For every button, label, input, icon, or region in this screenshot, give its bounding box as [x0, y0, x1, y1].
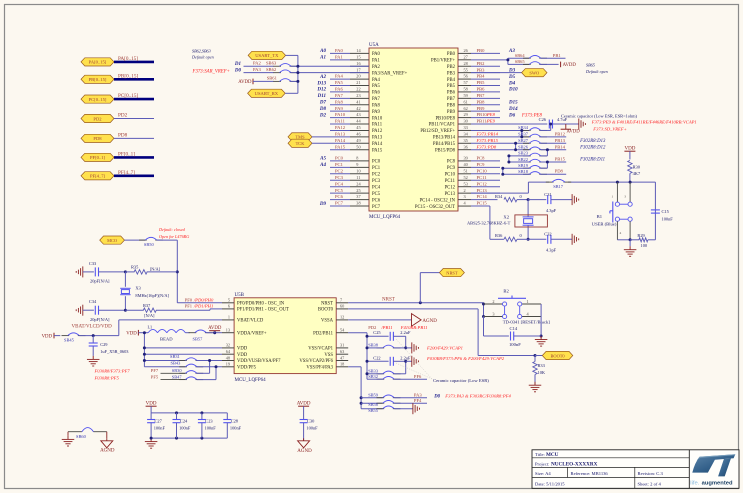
ground VCAP1 rotated	[406, 342, 419, 353]
svg-text:PB3: PB3	[477, 67, 486, 72]
power VDD B1	[624, 146, 635, 159]
port tag NRST	[420, 269, 464, 303]
svg-text:PC2: PC2	[335, 168, 344, 173]
svg-text:PA4: PA4	[335, 74, 343, 79]
svg-text:9: 9	[356, 162, 358, 167]
svg-text:/PD0/PH0: /PD0/PH0	[193, 297, 214, 302]
svg-text:SB18: SB18	[518, 169, 529, 174]
svg-text:PC14: PC14	[477, 194, 488, 199]
svg-text:2.2uF: 2.2uF	[400, 355, 411, 360]
wire PC14 row	[471, 199, 498, 201]
net label F373:PD8	[471, 144, 529, 149]
svg-text:PA7: PA7	[372, 97, 381, 102]
svg-text:PB4: PB4	[447, 78, 456, 83]
svg-text:PA15: PA15	[335, 144, 346, 149]
wire decoupling top rail	[151, 411, 227, 414]
svg-text:4.3pF: 4.3pF	[546, 248, 557, 253]
svg-text:PB10/PE8: PB10/PE8	[435, 116, 455, 121]
svg-text:F373:PA3 & F303RC/F030R8:PF4: F373:PA3 & F303RC/F030R8:PF4	[444, 394, 511, 399]
svg-text:40: 40	[464, 162, 468, 167]
svg-text:1uF_X5R_0603: 1uF_X5R_0603	[100, 349, 129, 354]
port tag SWO	[522, 69, 547, 77]
svg-text:SB59: SB59	[368, 392, 379, 397]
capacitor C31	[528, 192, 572, 213]
net label PF1	[185, 304, 214, 309]
ground SB55 rotated	[413, 403, 420, 414]
note F030R8 PF7	[94, 368, 131, 373]
svg-text:VDD: VDD	[42, 334, 53, 339]
svg-text:X3: X3	[135, 285, 141, 290]
svg-text:C30: C30	[307, 418, 315, 423]
svg-text:49: 49	[356, 138, 360, 143]
svg-text:C29: C29	[100, 342, 108, 347]
svg-text:F373:SAR_VREF+: F373:SAR_VREF+	[192, 70, 230, 75]
svg-text:PB3: PB3	[447, 71, 456, 76]
svg-text:PB8: PB8	[477, 99, 486, 104]
svg-text:C26: C26	[539, 117, 547, 122]
svg-text:PA9: PA9	[335, 106, 343, 111]
svg-text:F373:PB14: F373:PB14	[476, 131, 499, 136]
svg-text:D1: D1	[234, 62, 241, 67]
svg-text:C25: C25	[373, 330, 381, 335]
svg-text:100nF: 100nF	[230, 425, 242, 430]
svg-text:Sheet: 2 of 4: Sheet: 2 of 4	[638, 481, 662, 486]
svg-text:C24: C24	[180, 418, 188, 423]
solder bridge SB65	[508, 59, 559, 64]
svg-text:PC11: PC11	[477, 175, 488, 180]
svg-text:PA2: PA2	[253, 61, 261, 66]
svg-text:AGND: AGND	[100, 448, 115, 453]
svg-text:USER (Blue): USER (Blue)	[592, 222, 617, 227]
ground C14	[535, 336, 548, 346]
svg-text:PC15 - OSC32_OUT: PC15 - OSC32_OUT	[415, 205, 455, 210]
junction SB61	[296, 80, 299, 83]
svg-text:Reference: MB1136: Reference: MB1136	[571, 471, 609, 476]
svg-text:PB2: PB2	[447, 65, 456, 70]
wire SB45 to pin1	[119, 320, 222, 336]
solder bridge SB63	[244, 61, 370, 67]
svg-text:F373:PE9 & F401RE/F411RE/F446R: F373:PE9 & F401RE/F411RE/F446RE/F410RB:V…	[591, 120, 697, 125]
svg-text:19: 19	[226, 362, 230, 367]
wire PB3 to SWO	[471, 72, 522, 74]
svg-text:PF0/PD0/PH0 - OSC_IN: PF0/PD0/PH0 - OSC_IN	[237, 302, 285, 307]
port tag BOOT0	[535, 351, 573, 359]
wire SB34 to C26 node	[541, 123, 552, 131]
net label PB11/PE9	[477, 119, 496, 124]
solder bridge SB31	[143, 354, 222, 362]
svg-text:PA11: PA11	[335, 119, 346, 124]
svg-text:11: 11	[356, 175, 360, 180]
svg-text:PA13: PA13	[335, 131, 346, 136]
capacitor C34	[83, 299, 127, 322]
svg-text:SB38: SB38	[368, 342, 379, 347]
svg-text:58: 58	[464, 87, 468, 92]
svg-text:PF[4..7]: PF[4..7]	[90, 174, 106, 179]
solder bridge SB17	[546, 179, 571, 189]
svg-text:PB11/VCAP1: PB11/VCAP1	[429, 123, 456, 128]
svg-text:BEAD: BEAD	[160, 337, 173, 342]
svg-text:SB50: SB50	[144, 242, 155, 247]
ground C29	[87, 356, 100, 366]
crystal X2	[467, 214, 547, 227]
svg-text:VDD: VDD	[624, 146, 635, 151]
svg-text:SB37: SB37	[518, 132, 529, 137]
svg-text:10K: 10K	[538, 370, 546, 375]
svg-text:PC7: PC7	[372, 205, 381, 210]
svg-text:MCO: MCO	[107, 238, 117, 243]
svg-text:VDDA/VREF+: VDDA/VREF+	[237, 331, 267, 336]
solder bridge SB55	[361, 406, 413, 413]
svg-text:PB13/PB14: PB13/PB14	[433, 136, 456, 141]
svg-text:PA13: PA13	[372, 136, 383, 141]
svg-text:A5: A5	[319, 157, 326, 162]
svg-text:Project:: Project:	[535, 461, 549, 466]
svg-text:1: 1	[612, 194, 614, 198]
svg-text:PB2: PB2	[477, 61, 486, 66]
solder bridge SB45	[62, 333, 119, 343]
svg-text:PB14/PB15: PB14/PB15	[433, 142, 456, 147]
capacitor C23	[198, 413, 216, 438]
net label PB13	[541, 138, 566, 143]
solder bridge SB50	[125, 237, 178, 247]
svg-text:C27: C27	[155, 418, 163, 423]
ground AGND rotated C33	[76, 266, 83, 277]
svg-text:PD8: PD8	[555, 169, 564, 174]
svg-text:52: 52	[464, 175, 468, 180]
wire SB19 SB18 left stubs	[501, 167, 529, 176]
capacitor C33	[83, 261, 127, 284]
wire USART_RX	[285, 92, 298, 94]
svg-text:PC5: PC5	[372, 192, 381, 197]
svg-text:SB65: SB65	[515, 59, 526, 64]
solder bridge SB27	[518, 138, 547, 143]
svg-text:PA1: PA1	[372, 59, 381, 64]
resistor R35	[125, 265, 177, 274]
resistor R37	[125, 303, 222, 318]
svg-text:R29: R29	[637, 233, 645, 238]
svg-text:PC4: PC4	[335, 181, 344, 186]
svg-text:PB4: PB4	[477, 74, 486, 79]
svg-text:PC7: PC7	[335, 201, 344, 206]
svg-text:4.3pF: 4.3pF	[546, 208, 557, 213]
junction B1 top	[616, 181, 632, 184]
svg-text:SB23: SB23	[518, 151, 529, 156]
svg-text:3: 3	[492, 311, 494, 316]
svg-text:31: 31	[340, 343, 344, 348]
wire PD2 pin54	[348, 333, 367, 380]
U5A PA pin stubs and numbers	[316, 48, 369, 150]
svg-text:A0: A0	[319, 49, 326, 54]
svg-text:VBAT/VLCD: VBAT/VLCD	[237, 319, 264, 324]
svg-text:PA11: PA11	[372, 123, 383, 128]
net label PD8	[541, 169, 566, 175]
svg-text:SB57: SB57	[193, 337, 204, 342]
svg-text:18: 18	[340, 362, 344, 367]
svg-text:R30: R30	[633, 164, 641, 169]
ground decoupling rail	[145, 437, 158, 449]
capacitor C29	[89, 336, 130, 356]
power AVDD C30	[297, 401, 311, 419]
svg-text:SB47: SB47	[172, 374, 183, 379]
solder bridge SB38	[366, 336, 408, 349]
svg-text:SB63: SB63	[266, 61, 277, 66]
svg-text:61: 61	[464, 99, 468, 104]
svg-text:Default open: Default open	[585, 69, 608, 74]
svg-text:C32: C32	[544, 232, 551, 237]
svg-text:PB[0..15]: PB[0..15]	[89, 77, 107, 82]
wire PB1 pin27	[471, 58, 509, 64]
svg-text:PB13: PB13	[555, 138, 566, 143]
svg-text:D7: D7	[319, 101, 327, 106]
U5A PB pin stubs and numbers	[458, 48, 518, 150]
svg-text:PB0: PB0	[447, 52, 456, 57]
svg-text:PB12: PB12	[555, 131, 566, 136]
ground VCAP2 rotated	[406, 356, 419, 367]
svg-text:F200/F429:VCAP1: F200/F429:VCAP1	[426, 346, 463, 351]
svg-text:PD2: PD2	[93, 116, 102, 121]
svg-text:PC9: PC9	[477, 162, 486, 167]
capacitor C22	[366, 355, 411, 366]
svg-text:100nF: 100nF	[662, 217, 674, 222]
wire decoupling bottom rail	[151, 437, 227, 440]
ground AGND rotated C26	[579, 119, 586, 130]
U5A PC8-PC15 pin stubs	[458, 156, 500, 207]
svg-text:PC12: PC12	[477, 181, 488, 186]
svg-text:PC[0..15]: PC[0..15]	[118, 93, 138, 99]
ST logo	[690, 454, 735, 486]
svg-text:13: 13	[226, 328, 230, 333]
svg-text:22: 22	[356, 87, 360, 92]
junction PA2	[296, 65, 299, 68]
svg-text:100nF: 100nF	[205, 425, 217, 430]
svg-text:PC1: PC1	[372, 166, 381, 171]
junction AVDD pin13	[213, 331, 216, 334]
svg-text:NRST: NRST	[382, 298, 395, 303]
svg-text:PD8: PD8	[93, 136, 102, 141]
svg-text:TCK: TCK	[296, 141, 306, 146]
svg-text:PD2: PD2	[368, 325, 377, 330]
svg-text:PA6: PA6	[372, 91, 381, 96]
svg-text:C28: C28	[231, 418, 239, 423]
svg-text:Default: closed: Default: closed	[158, 227, 186, 232]
wire B2 left down to C14	[484, 317, 509, 337]
svg-text:VDD: VDD	[237, 347, 248, 352]
svg-text:PC13: PC13	[445, 192, 456, 197]
svg-text:100nF: 100nF	[154, 425, 166, 430]
solder bridge SB19	[518, 163, 547, 168]
note F373:PE8	[521, 113, 543, 118]
svg-text:100nF: 100nF	[306, 425, 318, 430]
svg-text:SB43: SB43	[171, 361, 182, 366]
svg-text:1: 1	[228, 315, 230, 320]
svg-text:62: 62	[464, 106, 468, 111]
svg-text:60: 60	[340, 304, 344, 309]
svg-text:45: 45	[356, 125, 360, 130]
svg-text:3: 3	[624, 194, 626, 198]
svg-text:F302R8:D12: F302R8:D12	[579, 146, 606, 151]
svg-text:PC6: PC6	[335, 194, 344, 199]
svg-text:2: 2	[464, 188, 466, 193]
svg-text:VSS/VCAP1: VSS/VCAP1	[308, 347, 333, 352]
port tag PD8	[81, 132, 154, 142]
wire crystal node vertical	[527, 200, 530, 241]
resistor R29	[637, 233, 648, 248]
net label VBAT/VLCD/VDD	[72, 324, 113, 329]
svg-text:PF[0..1]: PF[0..1]	[118, 151, 135, 157]
svg-text:3: 3	[464, 194, 466, 199]
port tag PA[0..15]	[81, 56, 154, 66]
svg-text:Ceramic capacitor (Low ESR): Ceramic capacitor (Low ESR)	[433, 378, 489, 383]
svg-text:Default open: Default open	[191, 55, 214, 60]
note F373 SAR_VREF	[192, 70, 230, 75]
svg-text:PB15: PB15	[555, 156, 566, 161]
svg-text:C14: C14	[510, 326, 518, 331]
IC U5A MCU_LQFP64	[369, 43, 458, 220]
net label F373:PB14	[471, 131, 529, 136]
wire MCO vertical	[176, 240, 222, 303]
svg-text:PC3: PC3	[372, 179, 381, 184]
U5B left pins	[222, 298, 289, 371]
svg-text:D15: D15	[508, 101, 518, 106]
svg-text:BOOT0: BOOT0	[550, 353, 565, 358]
note F373 VCAP1	[591, 120, 697, 125]
U5A PC pin stubs and numbers	[319, 156, 369, 207]
port tag PF[0..1]	[81, 151, 154, 161]
svg-text:PA5: PA5	[372, 84, 381, 89]
svg-text:PF1: PF1	[185, 304, 193, 309]
svg-text:PC8: PC8	[447, 160, 456, 165]
svg-text:D4: D4	[508, 81, 516, 86]
wire PB12 row	[471, 129, 529, 131]
resistor R36	[495, 233, 523, 241]
svg-text:SWO: SWO	[529, 70, 539, 75]
solder bridge SB23	[518, 151, 547, 156]
svg-text:PF1/PD1/PH1 - OSC_OUT: PF1/PD1/PH1 - OSC_OUT	[237, 308, 289, 313]
svg-text:X2: X2	[503, 214, 509, 219]
svg-text:PA3: PA3	[414, 392, 422, 397]
svg-text:D5: D5	[508, 75, 516, 80]
svg-text:35: 35	[464, 138, 468, 143]
svg-text:PA14: PA14	[335, 138, 346, 143]
svg-text:life.: life.	[690, 480, 699, 486]
title block text	[535, 452, 663, 486]
svg-text:[N/A]: [N/A]	[150, 267, 161, 272]
svg-text:PA8: PA8	[335, 99, 343, 104]
solder bridge SB59 PA3	[361, 392, 427, 397]
svg-text:AVDD: AVDD	[238, 80, 252, 85]
svg-text:PA2: PA2	[372, 65, 381, 70]
svg-text:VDD: VDD	[126, 332, 137, 337]
svg-text:D9: D9	[319, 202, 327, 207]
note F373 SD_VREF	[592, 127, 626, 132]
svg-text:F030R8/F373:PF7: F030R8/F373:PF7	[94, 368, 131, 373]
solder bridge SB62	[244, 67, 370, 73]
svg-text:PB14: PB14	[555, 144, 566, 149]
svg-text:A4: A4	[319, 163, 326, 168]
svg-text:F373:SD_VREF+: F373:SD_VREF+	[592, 127, 626, 132]
svg-text:SB65: SB65	[586, 62, 595, 67]
note D0 F373:PA3	[433, 394, 511, 400]
svg-text:100nF: 100nF	[509, 342, 521, 347]
wire PB11 to C26	[471, 123, 547, 125]
svg-text:D0: D0	[433, 395, 440, 400]
svg-text:VSSA: VSSA	[321, 319, 334, 324]
svg-text:MCU_LQFP64: MCU_LQFP64	[235, 378, 267, 383]
svg-text:/PB11: /PB11	[380, 325, 392, 330]
svg-text:D11: D11	[317, 94, 326, 99]
svg-text:PC8: PC8	[477, 156, 486, 161]
svg-text:VBAT/VLCD/VDD: VBAT/VLCD/VDD	[72, 324, 113, 329]
wire pin18 down	[348, 367, 362, 409]
svg-text:PA[0..15]: PA[0..15]	[89, 60, 107, 65]
net label PB10/PE8	[471, 112, 500, 117]
svg-text:PC2: PC2	[372, 173, 381, 178]
svg-text:AVDD: AVDD	[297, 401, 311, 406]
wire PC13 to button row	[471, 182, 655, 193]
svg-text:NRST: NRST	[446, 270, 458, 275]
svg-text:39: 39	[464, 156, 468, 161]
svg-text:R33: R33	[538, 363, 546, 368]
ground AGND rotated C34	[76, 305, 83, 316]
svg-text:ABS25-32.768KHZ-6-T: ABS25-32.768KHZ-6-T	[467, 221, 511, 226]
ground AGND SB60	[100, 432, 115, 454]
svg-text:100nF: 100nF	[179, 425, 191, 430]
svg-text:PF[4..7]: PF[4..7]	[118, 170, 135, 176]
svg-text:SB22: SB22	[518, 157, 528, 162]
svg-text:PA14: PA14	[372, 142, 383, 147]
svg-text:PA5: PA5	[335, 80, 343, 85]
svg-text:PA10: PA10	[335, 112, 346, 117]
solder bridge SB32 PF6	[367, 374, 427, 379]
svg-text:SB45: SB45	[64, 338, 75, 343]
svg-text:Size: A4: Size: A4	[535, 471, 551, 476]
svg-text:TD-0341 [RESET/Black]: TD-0341 [RESET/Black]	[503, 319, 551, 324]
svg-text:F302R8:D11: F302R8:D11	[579, 158, 605, 163]
svg-text:29: 29	[464, 112, 468, 117]
capacitor C26	[539, 117, 579, 129]
svg-text:PA10: PA10	[372, 116, 383, 121]
svg-text:PE9: PE9	[486, 119, 496, 124]
wire VDD pin64	[143, 353, 222, 356]
wire R34 to node	[517, 198, 530, 201]
svg-text:Revision: C.3: Revision: C.3	[638, 471, 664, 476]
svg-text:PC4: PC4	[372, 185, 381, 190]
svg-text:F410RB:PB11: F410RB:PB11	[400, 325, 428, 330]
capacitor C24	[173, 413, 191, 438]
svg-text:PA[0..15]: PA[0..15]	[118, 56, 138, 62]
svg-text:PE8: PE8	[486, 112, 496, 117]
wire NRST	[348, 298, 483, 305]
svg-text:PA12: PA12	[335, 125, 346, 130]
svg-text:VSS: VSS	[324, 353, 333, 358]
note F030R8 PF5	[94, 376, 120, 381]
svg-text:PA6: PA6	[335, 87, 343, 92]
svg-text:augmented: augmented	[702, 480, 733, 486]
svg-text:10: 10	[356, 168, 360, 173]
svg-text:C23: C23	[205, 418, 213, 423]
solder bridge SB37	[518, 132, 547, 137]
svg-text:21: 21	[356, 80, 360, 85]
svg-text:SB19: SB19	[518, 163, 529, 168]
ground R33	[529, 382, 542, 392]
svg-text:B2: B2	[503, 289, 509, 294]
svg-text:PB8: PB8	[447, 103, 456, 108]
svg-text:AVDD: AVDD	[208, 326, 222, 331]
svg-text:PA0: PA0	[372, 52, 381, 57]
svg-text:D8: D8	[319, 107, 327, 112]
wire B1 bottom	[617, 238, 639, 241]
svg-text:PC9: PC9	[447, 166, 456, 171]
